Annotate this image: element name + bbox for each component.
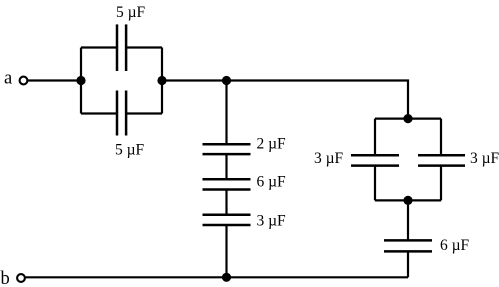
svg-text:5 µF: 5 µF: [116, 4, 146, 21]
svg-text:3 µF: 3 µF: [314, 150, 344, 167]
svg-text:b: b: [1, 269, 10, 287]
svg-text:3 µF: 3 µF: [470, 150, 499, 167]
svg-text:6 µF: 6 µF: [440, 237, 470, 254]
svg-text:5 µF: 5 µF: [115, 142, 145, 159]
svg-text:a: a: [4, 69, 12, 89]
svg-text:3 µF: 3 µF: [257, 213, 287, 230]
svg-text:2 µF: 2 µF: [257, 136, 287, 153]
svg-text:6 µF: 6 µF: [257, 174, 287, 191]
